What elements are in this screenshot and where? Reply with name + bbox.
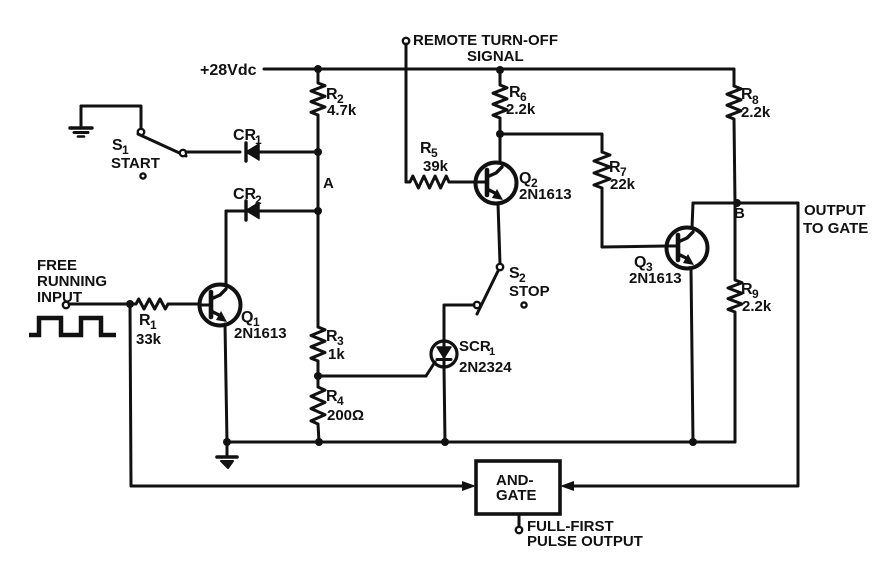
svg-text:2N1613: 2N1613 bbox=[519, 186, 572, 203]
svg-text:22k: 22k bbox=[610, 176, 636, 193]
switch S2 bottom contact bbox=[474, 302, 480, 308]
resistor R6 2.2k bbox=[493, 70, 507, 134]
wire SCR gate bbox=[318, 375, 426, 378]
svg-text:SIGNAL: SIGNAL bbox=[467, 48, 524, 65]
svg-text:A: A bbox=[323, 175, 334, 192]
svg-text:STOP: STOP bbox=[509, 283, 550, 300]
junction rail-R2 bbox=[314, 65, 322, 73]
svg-text:+28Vdc: +28Vdc bbox=[200, 62, 257, 79]
arrow into AND gate right bbox=[560, 481, 574, 491]
wire CR1 to node bbox=[259, 151, 318, 154]
wire R7 to Q3 base bbox=[602, 246, 667, 247]
arrow into AND gate left bbox=[462, 481, 476, 491]
wire output vertical bbox=[570, 203, 798, 486]
switch S1 blade bbox=[138, 134, 186, 156]
junction SCR cathode-bus bbox=[441, 438, 449, 446]
resistor R5 39k bbox=[406, 176, 475, 188]
wire Q3 collector bbox=[692, 203, 693, 228]
switch S1 open contact bbox=[140, 173, 145, 178]
svg-text:2N1613: 2N1613 bbox=[234, 325, 287, 342]
junction CR1-node bbox=[314, 148, 322, 156]
transistor Q1 2N1613 bbox=[200, 285, 241, 326]
svg-text:4: 4 bbox=[337, 394, 344, 408]
svg-text:FREE: FREE bbox=[37, 257, 77, 274]
svg-text:2.2k: 2.2k bbox=[741, 104, 771, 121]
wire S2 to SCR anode bbox=[444, 305, 474, 341]
transistor Q2 2N1613 bbox=[476, 163, 517, 204]
wire to R7 bbox=[500, 134, 602, 152]
switch S1 throw contact bbox=[180, 150, 186, 156]
svg-text:RUNNING: RUNNING bbox=[37, 273, 107, 290]
svg-text:33k: 33k bbox=[136, 331, 162, 348]
svg-text:Q: Q bbox=[634, 254, 646, 271]
terminal REMOTE TURN-OFF SIGNAL input bbox=[403, 38, 409, 44]
ground (S1) bbox=[70, 106, 92, 137]
junction Q3 emitter-bus bbox=[689, 438, 697, 446]
svg-text:1: 1 bbox=[489, 346, 495, 358]
svg-text:1: 1 bbox=[255, 133, 262, 147]
wire node A vertical bbox=[317, 152, 320, 327]
switch S1 pivot contact bbox=[138, 129, 144, 135]
svg-text:2N1613: 2N1613 bbox=[629, 270, 682, 287]
terminal full-first pulse output bbox=[516, 527, 522, 533]
wire rail to R8 bbox=[733, 69, 736, 86]
switch S2 blade bbox=[477, 271, 498, 314]
svg-text:START: START bbox=[111, 155, 160, 172]
svg-text:Q: Q bbox=[241, 309, 253, 326]
wire Q1 collector bbox=[225, 211, 228, 285]
svg-text:1k: 1k bbox=[328, 346, 345, 363]
wire Q3 emitter bbox=[691, 268, 693, 442]
svg-text:1: 1 bbox=[150, 318, 157, 332]
svg-text:CR: CR bbox=[233, 186, 257, 203]
resistor R9 2.2k bbox=[728, 203, 742, 442]
svg-text:PULSE OUTPUT: PULSE OUTPUT bbox=[527, 533, 643, 550]
switch S2 open contact bbox=[521, 302, 526, 307]
ground (main bus) bbox=[217, 442, 237, 468]
svg-text:REMOTE TURN-OFF: REMOTE TURN-OFF bbox=[413, 32, 558, 49]
wire Q3 collector to output corner bbox=[693, 202, 798, 205]
resistor R4 200ohm bbox=[311, 376, 325, 442]
junction R3-R4-gate bbox=[314, 372, 322, 380]
junction R4-bus bbox=[315, 438, 323, 446]
square wave input symbol bbox=[29, 318, 116, 335]
junction rail-R6 bbox=[496, 66, 504, 74]
svg-text:200Ω: 200Ω bbox=[327, 407, 364, 424]
resistor R7 22k bbox=[594, 152, 610, 247]
resistor R3 1k bbox=[311, 327, 325, 376]
resistor R1 33k bbox=[130, 299, 200, 309]
svg-text:2N2324: 2N2324 bbox=[459, 359, 512, 376]
svg-text:OUTPUT: OUTPUT bbox=[804, 202, 866, 219]
AND gate box bbox=[476, 461, 560, 514]
wire Q1 emitter bbox=[225, 324, 227, 442]
svg-text:GATE: GATE bbox=[496, 487, 537, 504]
wire CR2 to node A bbox=[259, 210, 318, 213]
junction input node bbox=[126, 300, 134, 308]
wire CR2 to Q1 collector bbox=[226, 211, 246, 285]
node B junction bbox=[733, 199, 741, 207]
diode CR2 bbox=[246, 201, 259, 220]
terminal free running input bbox=[63, 302, 69, 308]
svg-text:39k: 39k bbox=[423, 158, 449, 175]
svg-text:4.7k: 4.7k bbox=[327, 102, 357, 119]
resistor R2 4.7k bbox=[311, 69, 325, 152]
svg-text:Q: Q bbox=[519, 170, 531, 187]
wire S1 ground bracket bbox=[81, 106, 141, 129]
wire +28Vdc power rail bbox=[264, 68, 734, 71]
wire input feedback to AND gate bbox=[130, 304, 462, 486]
wire S1 to CR1 bbox=[186, 151, 240, 154]
resistor R8 2.2k bbox=[727, 86, 741, 203]
svg-text:2.2k: 2.2k bbox=[506, 101, 536, 118]
svg-text:TO GATE: TO GATE bbox=[803, 220, 868, 237]
thyristor SCR1 2N2324 bbox=[426, 341, 457, 376]
svg-text:2.2k: 2.2k bbox=[742, 298, 772, 315]
junction R6-Q2-R7 bbox=[496, 130, 504, 138]
wire Q2 emitter bbox=[498, 203, 500, 264]
diode CR1 bbox=[246, 143, 259, 161]
junction node A CR2 bbox=[314, 207, 322, 215]
svg-text:CR: CR bbox=[233, 127, 257, 144]
wire remote turn-off vertical bbox=[405, 44, 408, 182]
svg-text:2: 2 bbox=[255, 193, 262, 207]
transistor Q3 2N1613 bbox=[667, 228, 708, 269]
wire ground bus bbox=[227, 441, 735, 444]
wire Q2 collector bbox=[499, 134, 502, 163]
switch S2 top contact bbox=[497, 264, 503, 270]
wire AND gate output bbox=[518, 514, 521, 526]
junction Q1 emitter-bus bbox=[223, 438, 231, 446]
wire SCR cathode bbox=[444, 367, 445, 442]
svg-text:SCR: SCR bbox=[459, 338, 491, 355]
wire input to junction bbox=[69, 303, 130, 306]
